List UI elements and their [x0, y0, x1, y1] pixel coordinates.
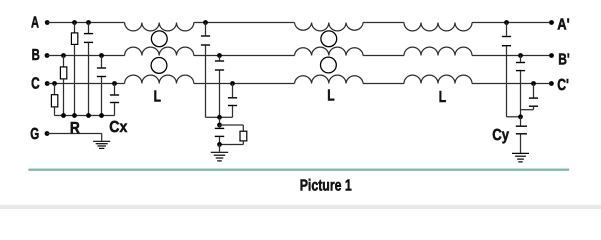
terminal dot A' [549, 20, 554, 25]
junction dot on A stage2 cap [203, 20, 208, 25]
svg-text:C: C [31, 76, 40, 93]
node G label [30, 126, 39, 143]
wire G segment [47, 134, 102, 141]
junction dot on C for capacitor Cx [112, 81, 117, 86]
terminal dot C [45, 81, 50, 86]
wire C segment 4 [472, 83, 552, 85]
label L choke3 [439, 89, 447, 106]
junction dot on A for capacitor Cx [86, 20, 91, 25]
svg-text:L: L [327, 88, 335, 105]
svg-text:Picture 1: Picture 1 [300, 177, 352, 194]
capacitor Cy phase C [521, 84, 539, 110]
stage2 junction dot 3 [217, 142, 222, 147]
resistor R phase B [60, 56, 66, 116]
inductor L choke3 winding A [404, 23, 472, 31]
junction dot on A for Cy [504, 20, 509, 25]
inductor L choke1 winding A [125, 23, 194, 31]
node B label [32, 47, 40, 64]
capacitor right to ground [516, 117, 527, 153]
resistor R phase C [51, 84, 57, 116]
label L choke2 [327, 88, 335, 105]
svg-text:B: B [32, 47, 40, 64]
svg-text:Cy: Cy [492, 127, 509, 144]
wire A segment 3 [363, 22, 404, 24]
choke1 core circle bottom [151, 58, 167, 74]
terminal dot C' [549, 81, 554, 86]
capacitor Cx phase A [84, 23, 93, 116]
svg-text:R: R [70, 120, 80, 137]
capacitor Cy phase B [516, 56, 525, 117]
ground symbol right [512, 153, 529, 162]
choke2 core circle top [321, 31, 337, 47]
ground symbol middle [211, 152, 228, 161]
capacitor Cx phase C [110, 84, 119, 116]
ground symbol left [93, 141, 110, 148]
divider rule [28, 169, 569, 171]
junction dot on B for Cy [518, 53, 523, 58]
svg-text:G: G [30, 126, 39, 143]
inductor L choke2 winding C [295, 75, 364, 83]
capacitor Cx phase B [97, 56, 106, 116]
junction dot on B for capacitor Cx [99, 53, 104, 58]
wire A segment 1 [47, 22, 124, 24]
caption Picture 1 [300, 177, 352, 194]
junction dot on A for resistor R [72, 20, 77, 25]
junction dot on C stage2 cap [230, 81, 235, 86]
terminal dot B [45, 53, 50, 58]
right junction dot [518, 114, 523, 119]
resistor R phase A [71, 23, 77, 116]
junction dot on B for resistor R [61, 53, 66, 58]
inductor L choke1 winding B [125, 47, 194, 55]
label L choke1 [154, 89, 162, 106]
inductor L choke3 winding C [404, 75, 472, 83]
resistor stage2 damping [220, 125, 247, 145]
node A label [31, 15, 39, 32]
terminal dot A [45, 20, 50, 25]
capacitor stage2 phase C [220, 84, 238, 118]
inductor L choke2 winding B [295, 47, 364, 55]
junction dot on B stage2 cap [217, 53, 222, 58]
wire C segment 2 [194, 83, 295, 85]
capacitor Cy phase A [502, 23, 521, 117]
capacitor stage2 to ground [215, 125, 224, 144]
wire A segment 4 [472, 22, 552, 24]
wire C segment 3 [363, 83, 404, 85]
node C label [31, 76, 40, 93]
wire C segment 1 [47, 83, 124, 85]
svg-text:L: L [154, 89, 162, 106]
stage2 wire dot1 to dot2 [219, 117, 221, 125]
bus junction dots [61, 113, 104, 118]
label R [70, 120, 80, 137]
terminal dot B' [549, 53, 554, 58]
wire B segment 1 [47, 55, 125, 57]
svg-text:B': B' [558, 52, 570, 69]
stage1 bus wire [55, 115, 115, 117]
wire A segment 2 [194, 22, 295, 24]
junction dot on C for resistor R [52, 81, 57, 86]
wire B segment 3 [363, 55, 404, 57]
terminal dot G [45, 131, 50, 136]
stage2 ground stem [219, 144, 221, 151]
label Cx [109, 119, 127, 136]
wire B segment 2 [194, 55, 295, 57]
svg-text:L: L [439, 89, 447, 106]
inductor L choke2 winding A [295, 23, 364, 31]
svg-text:A': A' [557, 17, 569, 34]
node B' label [558, 52, 570, 69]
capacitor stage2 phase A [201, 23, 220, 118]
node A' label [557, 17, 569, 34]
choke2 core circle bottom [321, 57, 337, 73]
svg-text:Cx: Cx [109, 119, 127, 136]
inductor L choke1 winding C [125, 75, 194, 83]
choke1 core circle top [151, 31, 167, 47]
junction dot on C for Cy [531, 81, 536, 86]
svg-text:A: A [31, 15, 39, 32]
node C' label [557, 77, 569, 94]
capacitor stage2 phase B [215, 56, 224, 118]
wire B segment 4 [472, 55, 552, 57]
label Cy [492, 127, 509, 144]
inductor L choke3 winding B [404, 47, 472, 55]
stage2 junction dot 1 [217, 115, 222, 120]
bottom gray bar [0, 205, 601, 209]
stage2 junction dot 2 [217, 123, 222, 128]
svg-text:C': C' [557, 77, 569, 94]
